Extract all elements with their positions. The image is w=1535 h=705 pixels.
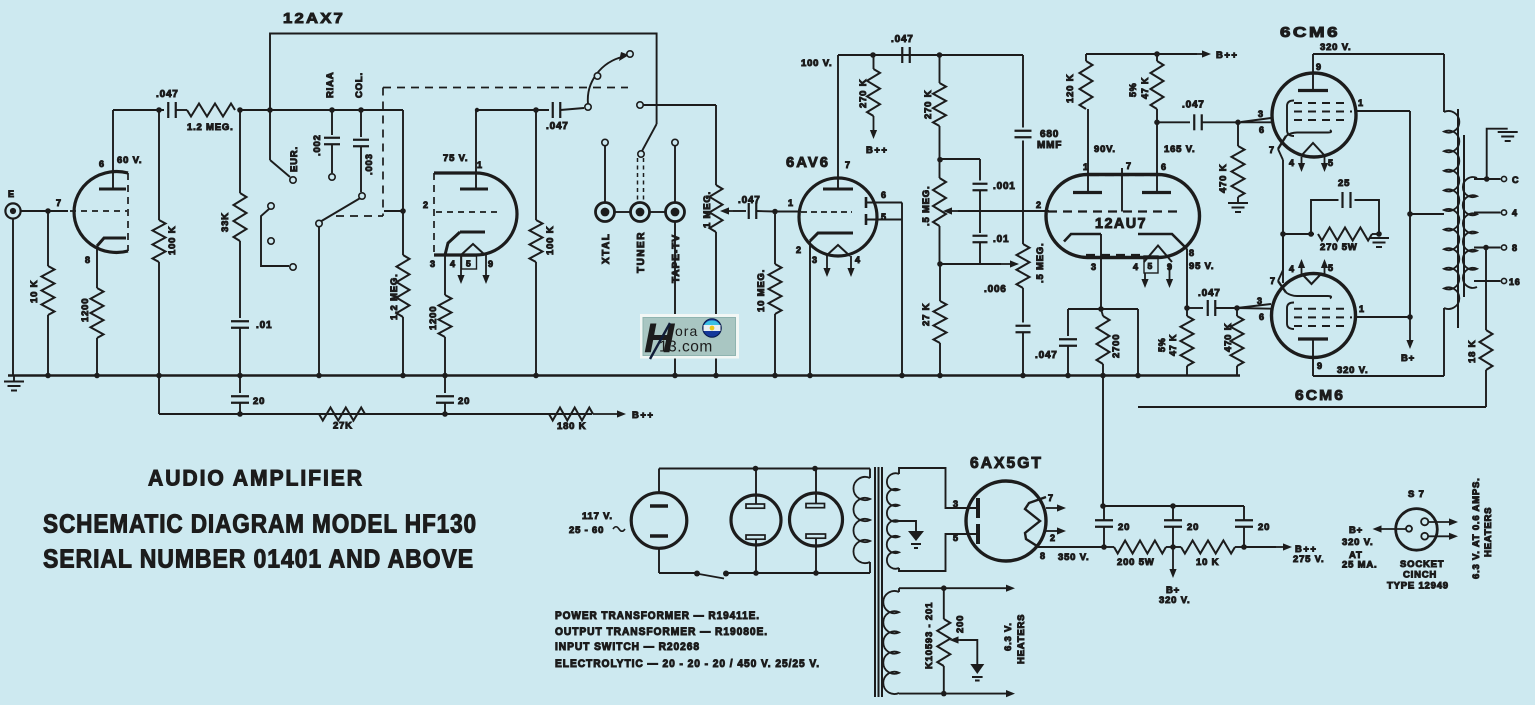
V5 grid structure pins 3 6 bbox=[1257, 296, 1352, 329]
svg-text:4: 4 bbox=[450, 259, 456, 269]
resistor 47K 5% (V3 plate load) bbox=[1128, 54, 1164, 109]
bass control .5 MEG #2 bbox=[1017, 243, 1047, 288]
capacitor .047 #3 (to V2 grid) bbox=[749, 203, 775, 219]
tuner dashed link bbox=[638, 158, 644, 202]
filter top line bbox=[1100, 503, 1244, 509]
node 100K#1/bus bbox=[156, 373, 162, 379]
V3 grid dashes lower bbox=[1086, 254, 1143, 256]
svg-text:3: 3 bbox=[1258, 109, 1264, 119]
node V3 cathode junction bbox=[1098, 306, 1104, 312]
input jack E bbox=[5, 189, 20, 376]
power switch contacts bbox=[694, 571, 729, 579]
svg-text:100 K: 100 K bbox=[167, 226, 178, 255]
capacitor .006 bbox=[984, 284, 1031, 376]
svg-text:ora: ora bbox=[675, 323, 698, 339]
svg-text:9: 9 bbox=[1316, 62, 1322, 72]
resistor 180K (dropping) bbox=[549, 408, 593, 421]
resistor 27K #2 (tone) bbox=[921, 264, 947, 376]
V4 V5 cathode rail bbox=[1278, 149, 1283, 283]
svg-text:.5 MEG.: .5 MEG. bbox=[1035, 243, 1046, 283]
V5 320 V. label bbox=[1337, 365, 1368, 376]
node jack gnd/bus bbox=[672, 373, 678, 379]
V2 grid dashed pin 1 bbox=[788, 198, 852, 212]
V5 pin 3 wire from coupling bbox=[1237, 307, 1271, 310]
V3 voltage 90V. bbox=[1094, 144, 1116, 155]
svg-text:5: 5 bbox=[1328, 158, 1334, 168]
117 V. 25-60 label bbox=[569, 511, 625, 536]
EUR lower contact chain bbox=[261, 203, 296, 270]
electrolytic can #1 bbox=[731, 495, 781, 545]
svg-text:2700: 2700 bbox=[1111, 334, 1122, 358]
node 47K top bbox=[1154, 51, 1160, 57]
svg-text:3: 3 bbox=[953, 499, 959, 509]
HV center tap ground bbox=[899, 521, 924, 548]
V3 grid dashes mid pin 2 bbox=[1036, 200, 1180, 212]
treble network junction bbox=[937, 126, 943, 178]
filter resistor 10K bbox=[1166, 541, 1244, 569]
svg-text:B++: B++ bbox=[632, 410, 654, 421]
svg-text:7: 7 bbox=[845, 160, 851, 170]
svg-text:5%: 5% bbox=[1157, 337, 1167, 352]
svg-text:27K: 27K bbox=[333, 421, 353, 432]
resistor 1200 (V1A cathode) bbox=[80, 288, 104, 376]
node pin6 coupling tap bbox=[1154, 120, 1160, 126]
output transformer secondary winding bbox=[1463, 177, 1477, 288]
secondary tap 4 bbox=[1474, 208, 1518, 218]
svg-text:47 K: 47 K bbox=[1140, 77, 1150, 99]
svg-text:13.com: 13.com bbox=[659, 339, 713, 356]
svg-text:TYPE 12949: TYPE 12949 bbox=[1387, 581, 1449, 592]
B++ arrow preamp bbox=[593, 410, 654, 421]
svg-text:75 V.: 75 V. bbox=[443, 153, 468, 164]
wire V1A plate to coupling network bbox=[113, 109, 164, 111]
node COL tap bbox=[358, 107, 364, 113]
svg-text:POWER TRANSFORMER — R19411E.: POWER TRANSFORMER — R19411E. bbox=[555, 610, 760, 622]
svg-text:3: 3 bbox=[812, 255, 818, 265]
svg-text:4: 4 bbox=[1512, 208, 1518, 218]
capacitor .047 #2 (to selector) bbox=[546, 102, 584, 132]
label K10593-201 bbox=[924, 602, 935, 669]
V5 plate pin 9 lead bbox=[1298, 339, 1328, 376]
V2 plate line bbox=[838, 54, 1023, 56]
resistor 270K #2 bbox=[923, 55, 946, 126]
note POWER TRANSFORMER R19411E bbox=[555, 610, 760, 622]
selector tuner arm bbox=[638, 124, 657, 157]
tube label 6AX5GT bbox=[970, 455, 1043, 472]
resistor 470K #1 (grid V4) bbox=[1218, 122, 1245, 202]
node lower coupling bbox=[1234, 305, 1240, 311]
svg-text:5: 5 bbox=[1148, 261, 1154, 271]
wire coupling to V5 pin 3 bbox=[1237, 304, 1271, 308]
V4 plate top wire to transformer bbox=[1313, 53, 1444, 55]
V4 320 V. label bbox=[1320, 42, 1351, 53]
wire V1B plate to switch cap bbox=[475, 108, 549, 112]
svg-text:8: 8 bbox=[1040, 551, 1046, 561]
V1B cathode pin 3 bbox=[430, 232, 485, 295]
svg-text:MMF: MMF bbox=[1037, 140, 1062, 151]
main ground bus bbox=[8, 374, 1240, 376]
V4 plate pin 9 lead bbox=[1298, 54, 1328, 91]
node RIAA tap bbox=[329, 107, 335, 113]
V3 voltage 165 V. bbox=[1164, 144, 1195, 155]
svg-text:1200: 1200 bbox=[428, 306, 439, 330]
node 1MEG/bus bbox=[713, 373, 719, 379]
node feedback riser/bus bbox=[1135, 373, 1141, 379]
B++ output arrow bbox=[1241, 543, 1324, 565]
V4 cathode pin 7 bbox=[1269, 130, 1331, 155]
AC top rail bbox=[659, 466, 870, 504]
svg-text:350 V.: 350 V. bbox=[1058, 552, 1089, 563]
node after 1.2 MEG bbox=[237, 107, 243, 113]
svg-text:270 K: 270 K bbox=[923, 90, 934, 119]
V6 plate pin 3 bbox=[953, 498, 978, 518]
resistor 33K (EQ) bbox=[220, 110, 247, 318]
ground feedback bbox=[1369, 238, 1389, 247]
node .047#6/bus bbox=[1065, 373, 1071, 379]
V3 plate bar pin 6 bbox=[1142, 191, 1171, 194]
wire node to EQ network bbox=[240, 109, 403, 111]
svg-text:TAPE-TV: TAPE-TV bbox=[671, 234, 682, 283]
svg-text:12AU7: 12AU7 bbox=[1095, 215, 1147, 232]
resistor 270K #1 to B++ bbox=[858, 55, 888, 156]
tube V4 6CM6 upper envelope bbox=[1272, 73, 1356, 157]
svg-text:3: 3 bbox=[1257, 296, 1263, 306]
svg-text:SCHEMATIC DIAGRAM MODEL: SCHEMATIC DIAGRAM MODEL HF130 bbox=[43, 509, 477, 539]
ground 470K#1 bbox=[1228, 203, 1248, 212]
B++ feed drop bbox=[158, 376, 160, 415]
resistor 2700 (V3 cathode) bbox=[1097, 309, 1123, 376]
electrolytic can #2 bbox=[790, 493, 843, 546]
svg-text:6: 6 bbox=[1161, 162, 1167, 172]
power transformer HV secondary bbox=[887, 468, 976, 571]
capacitor .047 (feedback) bbox=[156, 89, 179, 118]
node 10K/bus bbox=[45, 373, 51, 379]
svg-text:2: 2 bbox=[1050, 533, 1056, 543]
svg-text:16: 16 bbox=[1509, 277, 1521, 287]
V2 diode ground wire bbox=[901, 220, 903, 376]
wire cathode to feedback riser bbox=[1101, 309, 1138, 376]
svg-text:12AX7: 12AX7 bbox=[283, 10, 345, 27]
rectifier V6 6AX5GT envelope bbox=[966, 481, 1046, 561]
S7 B+ arrow bbox=[1342, 525, 1406, 571]
svg-text:33K: 33K bbox=[220, 212, 231, 232]
label 180K bbox=[557, 421, 586, 432]
svg-text:.5 MEG.: .5 MEG. bbox=[921, 186, 932, 226]
resistor 100K #2 (V1B plate load) bbox=[530, 110, 557, 376]
svg-text:.047: .047 bbox=[891, 34, 914, 45]
node diode/bus bbox=[899, 373, 905, 379]
svg-text:470 K: 470 K bbox=[1218, 164, 1229, 193]
svg-text:1: 1 bbox=[1083, 162, 1089, 172]
resistor 10K (input load) bbox=[29, 211, 55, 376]
tube V3 12AU7 envelope bbox=[1046, 175, 1200, 258]
svg-text:7: 7 bbox=[1270, 276, 1276, 286]
svg-text:100 K: 100 K bbox=[545, 226, 556, 255]
V3 voltage 95 V. bbox=[1189, 261, 1214, 272]
V3 grid dashes upper bbox=[1090, 174, 1165, 176]
svg-text:.002: .002 bbox=[312, 134, 323, 156]
svg-text:4: 4 bbox=[1289, 264, 1295, 274]
svg-text:6.3 V.: 6.3 V. bbox=[1003, 622, 1014, 651]
svg-text:270 5W: 270 5W bbox=[1320, 242, 1358, 253]
svg-text:10 MEG.: 10 MEG. bbox=[756, 269, 767, 312]
junction node on input wire bbox=[45, 208, 51, 214]
V5 cathode rail join bbox=[1278, 234, 1283, 281]
node .01/bus bbox=[237, 373, 243, 379]
svg-text:6: 6 bbox=[99, 159, 105, 169]
filter capacitor 20 #1 bbox=[1095, 506, 1130, 547]
svg-text:B++: B++ bbox=[866, 145, 888, 156]
XTAL jack bbox=[596, 139, 615, 264]
svg-text:1.2 MEG.: 1.2 MEG. bbox=[389, 273, 400, 320]
secondary tap C bbox=[1474, 175, 1519, 185]
node 27K/bus bbox=[937, 373, 943, 379]
resistor 1200 #2 (V1B cathode) bbox=[428, 295, 452, 376]
secondary ground bbox=[1484, 129, 1518, 182]
node 10MEG/bus bbox=[772, 373, 778, 379]
node .006/bus bbox=[1020, 373, 1026, 379]
capacitor .01 #2 bbox=[973, 191, 1010, 265]
svg-text:117 V.: 117 V. bbox=[582, 511, 613, 522]
svg-text:B++: B++ bbox=[1216, 50, 1238, 61]
label 6.3V HEATERS bbox=[1003, 614, 1027, 664]
svg-text:5: 5 bbox=[1328, 263, 1334, 273]
V1A cathode pin 8 bbox=[85, 238, 126, 288]
svg-text:6AX5GT: 6AX5GT bbox=[970, 455, 1043, 472]
svg-text:1: 1 bbox=[477, 160, 483, 170]
svg-text:320 V.: 320 V. bbox=[1342, 537, 1373, 548]
svg-text:7: 7 bbox=[1126, 161, 1132, 171]
svg-text:1: 1 bbox=[1358, 98, 1364, 108]
V5 heater pins 4 5 bbox=[1289, 259, 1334, 284]
title SCHEMATIC DIAGRAM MODEL HF130 bbox=[43, 509, 477, 539]
selector common contact and wire to volume control bbox=[637, 102, 716, 108]
AC interlock plug bbox=[631, 493, 687, 549]
filter resistor 200 5W bbox=[1101, 541, 1166, 569]
V6 heater pin 7 arrow bbox=[1046, 493, 1066, 512]
resistor 10 MEG (grid leak) bbox=[756, 212, 782, 376]
svg-text:S 7: S 7 bbox=[1408, 489, 1425, 500]
svg-text:10 K: 10 K bbox=[1196, 557, 1219, 568]
V3 cathode pin 3 bbox=[1064, 234, 1101, 309]
node grid junction V1B bbox=[384, 208, 406, 214]
node upper coupling bbox=[1235, 120, 1241, 126]
svg-text:7: 7 bbox=[56, 198, 62, 208]
node 100K#2 top bbox=[533, 107, 539, 113]
node 100K#2/bus bbox=[533, 373, 539, 379]
svg-text:9: 9 bbox=[1317, 361, 1323, 371]
capacitor .047 #4 bbox=[891, 34, 914, 63]
svg-text:5: 5 bbox=[953, 533, 959, 543]
tube V2 6AV6 envelope bbox=[799, 178, 877, 256]
node cathode rail / feedback bbox=[1280, 231, 1286, 237]
note INPUT SWITCH R20268 bbox=[555, 641, 700, 653]
svg-text:27 K: 27 K bbox=[921, 303, 932, 326]
V5 screen pin 1 wire bbox=[1356, 304, 1410, 317]
capacitor .002 (RIAA) bbox=[312, 72, 340, 181]
capacitor .047 #6 (cathode) bbox=[1035, 309, 1101, 376]
V3 plate pin 6 lead bbox=[1157, 109, 1167, 193]
hum pot wiper to ground bbox=[950, 636, 985, 680]
svg-text:20: 20 bbox=[253, 396, 265, 407]
triode V1A 12AX7 envelope bbox=[74, 171, 128, 252]
tube V5 6CM6 lower envelope bbox=[1272, 274, 1356, 358]
heater winding 6.3V bbox=[883, 585, 1015, 698]
V1A grid dashed lead pin 7 bbox=[56, 198, 127, 211]
svg-text:320 V.: 320 V. bbox=[1320, 42, 1351, 53]
resistor 100K #1 (V1A plate load) bbox=[153, 110, 179, 376]
V1B plate voltage 75 V. bbox=[443, 153, 468, 164]
COL switch arm bbox=[316, 193, 365, 376]
svg-text:INPUT SWITCH — R20268: INPUT SWITCH — R20268 bbox=[555, 641, 700, 653]
svg-text:B+: B+ bbox=[1401, 353, 1415, 364]
title SERIAL NUMBER 01401 AND ABOVE bbox=[43, 544, 474, 574]
node V2 grid / 10 MEG bbox=[772, 209, 778, 215]
svg-text:8: 8 bbox=[85, 255, 91, 265]
volume control 1 MEG bbox=[702, 105, 723, 376]
svg-text:K10593 - 201: K10593 - 201 bbox=[924, 602, 935, 669]
V2 plate pin 7 and lead bbox=[823, 55, 853, 189]
svg-text:6CM6: 6CM6 bbox=[1280, 24, 1340, 41]
treble control .5 MEG bbox=[921, 178, 946, 264]
V3 B++ supply line with arrow bbox=[1086, 50, 1238, 61]
svg-text:E: E bbox=[8, 189, 15, 199]
svg-text:18 K: 18 K bbox=[1467, 340, 1478, 363]
wire to V2 pin 1 bbox=[775, 211, 799, 213]
svg-text:470 K: 470 K bbox=[1223, 323, 1234, 352]
svg-text:200 5W: 200 5W bbox=[1117, 557, 1155, 568]
node tone junction bbox=[937, 261, 980, 267]
svg-text:320 V.: 320 V. bbox=[1159, 595, 1190, 606]
svg-text:7: 7 bbox=[1048, 493, 1054, 503]
svg-text:9: 9 bbox=[1167, 262, 1173, 272]
wire junction to cap chain bbox=[940, 158, 980, 160]
top rail of EQ feedback loop bbox=[270, 34, 657, 125]
V3 plate bar pin 1 bbox=[1073, 191, 1102, 194]
S7 heater arrows bbox=[1428, 518, 1458, 540]
note ELECTROLYTIC bbox=[555, 658, 820, 670]
node 100K plate load tap bbox=[156, 107, 162, 113]
S7 label SOCKET CINCH TYPE 12949 bbox=[1387, 559, 1449, 592]
svg-text:60 V.: 60 V. bbox=[117, 155, 142, 166]
resistor 120K (V3 plate load) bbox=[1065, 54, 1093, 109]
label .047 #3 bbox=[738, 195, 761, 206]
svg-text:8: 8 bbox=[1512, 243, 1518, 253]
feedback resistor 270 5W bbox=[1283, 228, 1382, 254]
tube label 12AX7 bbox=[283, 10, 345, 27]
V6 heater pin 2 arrow bbox=[1046, 527, 1066, 543]
TAPE-TV ground wire bbox=[674, 222, 676, 376]
svg-text:EUR.: EUR. bbox=[289, 146, 300, 172]
V1A plate pin 6 and lead bbox=[99, 110, 126, 189]
tube label 6CM6 upper bbox=[1280, 24, 1340, 41]
svg-text:.047: .047 bbox=[546, 121, 569, 132]
svg-text:AUDIO AMPLIFIER: AUDIO AMPLIFIER bbox=[148, 466, 364, 491]
svg-text:9: 9 bbox=[488, 259, 494, 269]
triode V1B 12AX7 envelope bbox=[434, 173, 517, 255]
B+ screen rail bbox=[1407, 111, 1444, 317]
resistor 47K 5% #2 bbox=[1157, 305, 1194, 375]
svg-text:6: 6 bbox=[881, 190, 887, 200]
svg-text:25: 25 bbox=[1338, 178, 1350, 189]
V3 plate pin 1 lead bbox=[1083, 109, 1089, 193]
tube label 6AV6 bbox=[786, 154, 830, 171]
node 1.2MEG#2/bus bbox=[400, 373, 406, 379]
B++ preamp line bbox=[159, 413, 592, 415]
hum balance pot 200 bbox=[937, 585, 966, 696]
svg-text:95 V.: 95 V. bbox=[1189, 261, 1214, 272]
svg-text:5%: 5% bbox=[1128, 82, 1138, 97]
svg-text:5: 5 bbox=[466, 259, 472, 269]
svg-text:.006: .006 bbox=[984, 284, 1007, 295]
selector rotor arc with arrow bbox=[588, 51, 633, 104]
svg-text:100 V.: 100 V. bbox=[801, 58, 832, 69]
svg-text:680: 680 bbox=[1040, 129, 1059, 140]
power transformer primary bbox=[853, 469, 870, 574]
svg-text:20: 20 bbox=[1258, 522, 1270, 533]
resistor 1.2 MEG #2 (V1B grid) bbox=[389, 110, 410, 376]
capacitor 20 #1 (decoupling) bbox=[231, 376, 265, 417]
node 1200/bus bbox=[94, 373, 100, 379]
V6 cathode pin 8 output bbox=[1038, 547, 1104, 563]
V5 plate bottom wire to transformer bbox=[1313, 375, 1444, 377]
svg-text:.003: .003 bbox=[364, 153, 375, 175]
tube label 12AU7 bbox=[1095, 215, 1147, 232]
node COL arm/bus bbox=[316, 373, 322, 379]
svg-text:.01: .01 bbox=[256, 320, 272, 331]
svg-text:ELECTROLYTIC — 20 - 20 - 20 /: ELECTROLYTIC — 20 - 20 - 20 / 450 V. 25/… bbox=[555, 658, 820, 670]
svg-text:20: 20 bbox=[1187, 522, 1199, 533]
wire coupling to V4 pin 3 bbox=[1241, 118, 1271, 122]
svg-text:.001: .001 bbox=[993, 181, 1016, 192]
secondary tap 16 bbox=[1474, 277, 1521, 287]
resistor 27K #1 (decoupling) bbox=[319, 408, 448, 432]
svg-text:120 K: 120 K bbox=[1065, 74, 1076, 103]
output transformer primary winding bbox=[1444, 54, 1459, 376]
svg-text:SERIAL NUMBER 01401 AND: SERIAL NUMBER 01401 AND ABOVE bbox=[43, 544, 474, 574]
AC bottom rail bbox=[659, 539, 870, 576]
tube label 6CM6 lower bbox=[1295, 387, 1345, 404]
dashed selector frame bbox=[336, 88, 628, 217]
feedback return wire bbox=[1138, 406, 1486, 408]
power transformer core bbox=[875, 467, 882, 697]
svg-text:COL.: COL. bbox=[354, 72, 365, 98]
TUNER jack bbox=[631, 203, 650, 274]
svg-text:6: 6 bbox=[1259, 125, 1265, 135]
svg-text:320 V.: 320 V. bbox=[1337, 365, 1368, 376]
svg-text:270 K: 270 K bbox=[858, 79, 869, 108]
EUR contact arm from rail bbox=[270, 110, 300, 183]
resistor 1.2 MEG (feedback) bbox=[187, 104, 235, 134]
svg-text:20: 20 bbox=[1118, 522, 1130, 533]
svg-text:200: 200 bbox=[955, 615, 966, 633]
chassis ground symbol bbox=[4, 376, 24, 391]
capacitor .003 (COL) bbox=[353, 72, 375, 192]
capacitor 20 #2 (decoupling) bbox=[436, 376, 470, 415]
V2 cathode pin 2 bbox=[796, 233, 853, 376]
V2 plate voltage 100 V. bbox=[801, 58, 832, 69]
V4 screen pin 1 wire bbox=[1356, 98, 1410, 111]
svg-text:1: 1 bbox=[1359, 304, 1365, 314]
capacitor 680 MMF bbox=[1015, 55, 1063, 244]
output transformer core bbox=[1458, 109, 1464, 328]
V4 pin 3 wire from coupling bbox=[1238, 121, 1273, 123]
svg-text:1200: 1200 bbox=[80, 298, 91, 322]
V5 cathode pin 7 bbox=[1270, 276, 1331, 299]
svg-text:.01: .01 bbox=[993, 234, 1009, 245]
resistor 18K (feedback) bbox=[1467, 245, 1493, 407]
svg-text:4: 4 bbox=[855, 255, 861, 265]
